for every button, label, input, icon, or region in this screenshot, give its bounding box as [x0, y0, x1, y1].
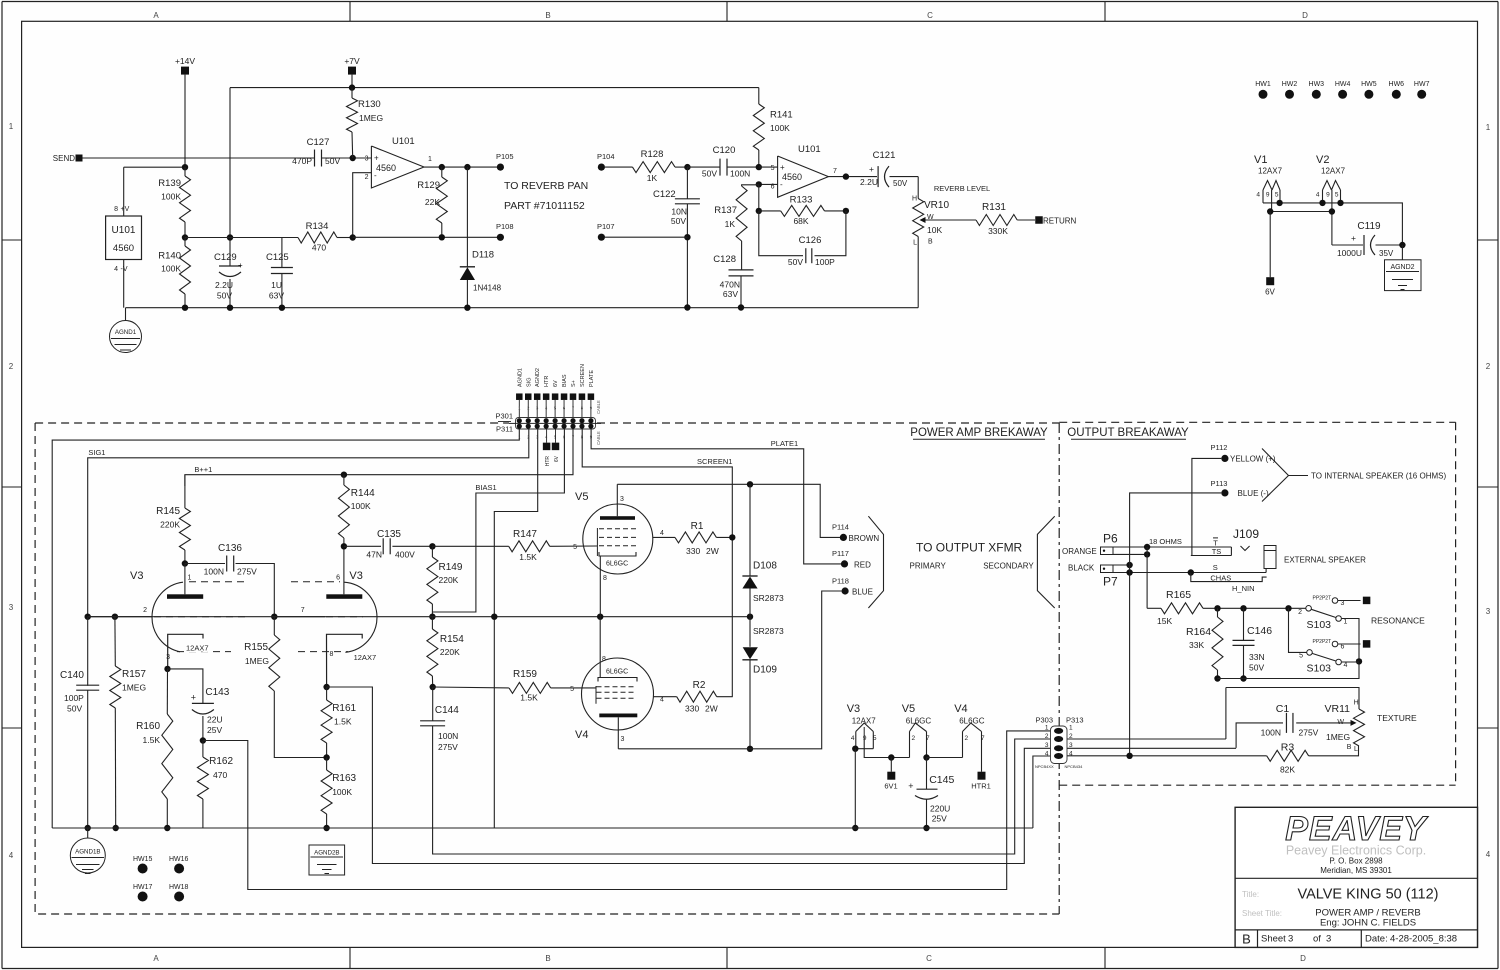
- svg-text:2: 2: [965, 735, 969, 742]
- svg-text:R144: R144: [351, 488, 375, 499]
- svg-text:+: +: [191, 693, 196, 703]
- svg-text:82K: 82K: [1280, 765, 1295, 775]
- svg-text:2: 2: [365, 174, 369, 181]
- svg-text:6V: 6V: [553, 380, 559, 387]
- svg-text:+: +: [869, 164, 874, 174]
- tube V3b envelope: [344, 582, 377, 652]
- svg-text:R1: R1: [691, 521, 704, 532]
- svg-text:5: 5: [1335, 192, 1339, 199]
- tube V3a envelope: [152, 582, 183, 652]
- svg-text:63V: 63V: [269, 291, 284, 301]
- wire feedback rail: [185, 237, 230, 239]
- svg-text:2: 2: [1045, 733, 1049, 740]
- svg-text:1: 1: [188, 575, 192, 582]
- svg-text:+V: +V: [121, 206, 130, 213]
- svg-text:R129: R129: [417, 180, 440, 191]
- svg-text:P313: P313: [1066, 716, 1084, 725]
- svg-text:470N: 470N: [720, 280, 740, 290]
- resistor R130: [351, 88, 353, 98]
- svg-text:S: S: [1213, 563, 1218, 572]
- wire heater bus1: [1263, 203, 1402, 245]
- svg-text:L: L: [913, 240, 917, 247]
- svg-text:12AX7: 12AX7: [1258, 167, 1283, 176]
- svg-text:C145: C145: [929, 774, 954, 786]
- svg-text:U101: U101: [392, 136, 415, 147]
- svg-text:9: 9: [1326, 192, 1330, 199]
- power 6V1: [888, 754, 894, 760]
- svg-text:4560: 4560: [376, 163, 396, 173]
- svg-text:PEAVEY: PEAVEY: [1285, 810, 1429, 848]
- title block frame: [1235, 807, 1477, 947]
- svg-text:+: +: [238, 261, 243, 270]
- svg-text:3: 3: [620, 496, 624, 503]
- svg-text:AGND1: AGND1: [517, 368, 523, 387]
- svg-text:4560: 4560: [113, 243, 134, 254]
- resistor R134: [230, 237, 298, 239]
- wire opamp2 plus: [759, 166, 778, 168]
- capacitor C145: [926, 758, 928, 790]
- capacitor C144: [432, 687, 434, 721]
- svg-text:R165: R165: [1166, 589, 1191, 601]
- svg-text:D118: D118: [472, 250, 494, 261]
- svg-text:100K: 100K: [332, 787, 352, 797]
- tube V3b cathode: [327, 634, 363, 687]
- svg-text:HW3: HW3: [1309, 81, 1325, 88]
- dashed output breakaway box: [1059, 421, 1455, 423]
- wire yellow net: [1192, 458, 1221, 555]
- svg-text:A: A: [153, 954, 159, 963]
- svg-text:47N: 47N: [366, 550, 382, 560]
- port P108: [497, 234, 504, 241]
- resistor R139: [180, 176, 191, 222]
- svg-text:S+: S+: [571, 380, 577, 387]
- svg-text:EXTERNAL SPEAKER: EXTERNAL SPEAKER: [1284, 556, 1366, 565]
- capacitor C140: [87, 617, 89, 686]
- capacitor C121: [877, 166, 879, 187]
- svg-text:2: 2: [9, 362, 14, 371]
- wire P107 to C122: [604, 236, 687, 238]
- svg-text:AGND2B: AGND2B: [314, 849, 339, 856]
- svg-text:P107: P107: [597, 222, 615, 231]
- svg-text:RED: RED: [854, 561, 871, 570]
- svg-text:BLUE: BLUE: [852, 588, 873, 597]
- svg-text:8: 8: [603, 575, 607, 582]
- svg-text:R155: R155: [244, 642, 268, 653]
- svg-text:3: 3: [621, 736, 625, 743]
- svg-text:R128: R128: [641, 149, 664, 160]
- connector HTR square: [546, 429, 548, 443]
- svg-text:6: 6: [336, 575, 340, 582]
- brace primary: [868, 516, 883, 608]
- svg-text:C136: C136: [218, 543, 242, 554]
- wire opamp2 output: [828, 176, 877, 178]
- svg-text:Meridian, MS 39301: Meridian, MS 39301: [1320, 866, 1392, 875]
- wire P6 bottom: [1113, 553, 1147, 555]
- svg-text:-V: -V: [121, 266, 128, 273]
- svg-text:1: 1: [1344, 619, 1348, 626]
- svg-text:S103: S103: [1307, 619, 1332, 631]
- svg-text:7: 7: [301, 607, 305, 614]
- svg-text:U101: U101: [798, 144, 821, 155]
- svg-text:ORANGE: ORANGE: [1062, 547, 1097, 556]
- svg-text:C135: C135: [377, 529, 401, 540]
- resistor R147: [432, 545, 508, 547]
- wire blue net: [1130, 493, 1222, 756]
- svg-text:50V: 50V: [893, 179, 908, 188]
- capacitor C126: [759, 211, 803, 256]
- tube V3b plate: [343, 546, 345, 594]
- wire opamp2 inv node: [759, 183, 778, 185]
- svg-text:R147: R147: [513, 529, 537, 540]
- svg-text:C140: C140: [60, 670, 84, 681]
- svg-text:3: 3: [9, 603, 14, 612]
- wire AGND1 rail: [126, 307, 919, 309]
- svg-text:2W: 2W: [705, 704, 718, 714]
- tube V4 cathode: [598, 678, 637, 682]
- svg-text:C125: C125: [266, 252, 289, 263]
- svg-text:+: +: [780, 163, 785, 172]
- svg-text:C119: C119: [1357, 221, 1381, 232]
- svg-text:C127: C127: [307, 137, 330, 148]
- brace internal speaker: [1262, 449, 1289, 502]
- svg-text:H: H: [912, 196, 917, 203]
- svg-text:C129: C129: [214, 252, 237, 263]
- svg-text:Peavey Electronics Corp.: Peavey Electronics Corp.: [1286, 844, 1426, 858]
- svg-text:HW7: HW7: [1414, 81, 1430, 88]
- svg-text:TO REVERB PAN: TO REVERB PAN: [504, 180, 588, 192]
- svg-text:BLACK: BLACK: [1068, 564, 1095, 573]
- resistor R1: [653, 536, 675, 538]
- zone ticks: [349, 2, 351, 22]
- svg-text:1MEG: 1MEG: [245, 656, 269, 666]
- svg-text:1.5K: 1.5K: [334, 717, 352, 727]
- svg-text:PP2P2T: PP2P2T: [1313, 596, 1332, 602]
- svg-text:C1: C1: [1276, 703, 1290, 715]
- svg-text:P112: P112: [1211, 443, 1228, 452]
- wire PLATE1 net: [591, 429, 841, 564]
- svg-text:HW2: HW2: [1282, 81, 1298, 88]
- node +14V junction: [182, 164, 188, 170]
- svg-text:PART #71011152: PART #71011152: [504, 200, 585, 212]
- svg-text:2: 2: [1298, 609, 1302, 616]
- wire AGND1 net: [52, 429, 519, 828]
- svg-text:50V: 50V: [67, 704, 82, 714]
- svg-text:P311: P311: [496, 425, 513, 434]
- svg-text:4: 4: [660, 530, 664, 537]
- capacitor C122: [686, 167, 688, 199]
- svg-text:1: 1: [1045, 725, 1049, 732]
- node R139/R140: [182, 234, 188, 240]
- border frame: [2, 1, 1498, 3]
- svg-text:100K: 100K: [351, 501, 371, 511]
- svg-text:68K: 68K: [793, 216, 808, 226]
- svg-text:HW15: HW15: [133, 856, 153, 863]
- wire C146 bottom: [1218, 619, 1360, 679]
- svg-text:A: A: [153, 11, 159, 20]
- svg-text:BLUE (-): BLUE (-): [1238, 489, 1269, 498]
- svg-text:B: B: [1347, 744, 1352, 751]
- svg-text:5: 5: [771, 165, 775, 172]
- resistor R137: [742, 185, 759, 186]
- svg-text:3: 3: [166, 654, 170, 661]
- svg-text:3: 3: [1326, 934, 1331, 945]
- wire P7 sleeve line: [1113, 572, 1266, 574]
- svg-text:V4: V4: [575, 729, 588, 741]
- svg-text:SR2873: SR2873: [753, 626, 784, 636]
- svg-text:+7V: +7V: [344, 56, 360, 66]
- svg-text:P105: P105: [496, 152, 514, 161]
- svg-text:L: L: [1354, 746, 1358, 753]
- svg-text:P7: P7: [1103, 575, 1118, 589]
- svg-text:12AX7: 12AX7: [186, 644, 209, 653]
- svg-text:15K: 15K: [1157, 616, 1172, 626]
- node C120 left: [684, 164, 690, 170]
- connector P303/P313 body: [1051, 726, 1068, 764]
- svg-text:1.5K: 1.5K: [519, 552, 537, 562]
- svg-text:2: 2: [1069, 733, 1073, 740]
- port SEND: [76, 155, 83, 162]
- svg-text:R130: R130: [358, 99, 381, 110]
- resistor R159: [433, 686, 509, 689]
- wire chassis: [1191, 573, 1267, 582]
- svg-text:V3: V3: [349, 570, 362, 582]
- svg-text:+14V: +14V: [175, 56, 195, 66]
- svg-text:12AX7: 12AX7: [354, 653, 377, 662]
- svg-text:TO INTERNAL SPEAKER (16 OHMS): TO INTERNAL SPEAKER (16 OHMS): [1311, 472, 1446, 481]
- svg-text:3: 3: [365, 156, 369, 163]
- tube V4 grids: [597, 686, 637, 688]
- svg-text:4560: 4560: [782, 172, 802, 182]
- tube V3a grid: [88, 616, 153, 618]
- hardware HW1-HW7: [1259, 90, 1268, 99]
- svg-text:25V: 25V: [207, 725, 222, 735]
- svg-text:100N: 100N: [1261, 728, 1281, 738]
- svg-text:25V: 25V: [932, 814, 947, 824]
- svg-text:4: 4: [1486, 850, 1491, 859]
- wire P7 top: [1113, 564, 1130, 566]
- resistor R129: [441, 167, 443, 177]
- svg-text:12AX7: 12AX7: [1321, 167, 1346, 176]
- tube V5 grids: [599, 528, 636, 530]
- svg-text:6L6GC: 6L6GC: [906, 717, 932, 726]
- svg-text:HW5: HW5: [1361, 81, 1377, 88]
- resistor R133: [759, 210, 781, 212]
- svg-text:R154: R154: [440, 634, 464, 645]
- svg-text:2: 2: [1486, 362, 1491, 371]
- svg-text:4-28-2005_8:38: 4-28-2005_8:38: [1390, 934, 1457, 945]
- svg-text:RESONANCE: RESONANCE: [1371, 616, 1425, 626]
- svg-text:R134: R134: [306, 221, 329, 232]
- svg-text:POWER AMP BREKAWAY: POWER AMP BREKAWAY: [910, 427, 1048, 439]
- svg-text:C126: C126: [799, 235, 822, 246]
- svg-text:7: 7: [833, 168, 837, 175]
- svg-text:R149: R149: [439, 562, 463, 573]
- svg-text:4: 4: [1256, 192, 1260, 199]
- tube V5 cathode: [599, 552, 636, 556]
- svg-text:Sheet: Sheet: [1261, 934, 1286, 945]
- ground AGND1B: [87, 828, 89, 838]
- svg-text:P108: P108: [496, 222, 514, 231]
- svg-text:1MEG: 1MEG: [122, 683, 146, 693]
- wire BIAS1 net: [432, 429, 564, 612]
- resistor R160: [166, 669, 168, 714]
- svg-text:R145: R145: [156, 506, 180, 517]
- svg-text:V4: V4: [954, 703, 967, 715]
- svg-text:HTR: HTR: [544, 376, 550, 387]
- wire AGND2 net: [494, 429, 537, 828]
- svg-text:4: 4: [660, 697, 664, 704]
- svg-text:50V: 50V: [788, 257, 803, 267]
- svg-text:+: +: [1351, 233, 1356, 243]
- capacitor C143: [168, 669, 203, 704]
- svg-text:8: 8: [602, 656, 606, 663]
- svg-text:5: 5: [1275, 192, 1279, 199]
- svg-text:33K: 33K: [1189, 640, 1204, 650]
- svg-text:HW1: HW1: [1255, 81, 1271, 88]
- svg-text:2.2U: 2.2U: [215, 280, 233, 290]
- wire opamp1 output: [424, 166, 500, 168]
- wire cathode rail: [88, 616, 750, 618]
- svg-text:P118: P118: [832, 577, 849, 586]
- svg-text:8: 8: [114, 206, 118, 213]
- svg-text:CHAS: CHAS: [1210, 573, 1231, 582]
- svg-text:330: 330: [685, 704, 699, 714]
- svg-text:Title:: Title:: [1242, 890, 1259, 899]
- svg-text:SECONDARY: SECONDARY: [983, 561, 1034, 570]
- svg-text:PLATE: PLATE: [589, 370, 595, 387]
- svg-text:HW16: HW16: [169, 856, 189, 863]
- svg-text:V5: V5: [575, 491, 588, 503]
- svg-text:6V1: 6V1: [884, 782, 897, 791]
- svg-text:HW17: HW17: [133, 884, 153, 891]
- resistor R141: [758, 88, 760, 104]
- svg-text:AGND2: AGND2: [535, 368, 541, 387]
- svg-text:6V: 6V: [1265, 288, 1275, 297]
- port P114: [840, 534, 847, 541]
- svg-text:22U: 22U: [207, 715, 223, 725]
- resistor R164: [1217, 608, 1219, 617]
- svg-text:4: 4: [1344, 662, 1348, 669]
- svg-text:D108: D108: [753, 561, 777, 572]
- wire SCREEN1 net: [582, 429, 732, 697]
- svg-text:50V: 50V: [1249, 663, 1264, 673]
- tube V3a plate: [184, 564, 186, 595]
- op-amp U101b: [778, 156, 829, 197]
- resistor R128: [604, 166, 633, 168]
- svg-text:2W: 2W: [706, 546, 719, 556]
- svg-text:220K: 220K: [160, 520, 180, 530]
- tube V5 plate: [600, 516, 635, 520]
- svg-text:B: B: [928, 239, 933, 246]
- resistor R155: [273, 617, 275, 635]
- op-amp U101a: [371, 146, 424, 188]
- potentiometer VR11: [1226, 688, 1359, 710]
- svg-text:V5: V5: [902, 703, 915, 715]
- svg-text:12AX7: 12AX7: [852, 717, 877, 726]
- port RETURN: [1035, 216, 1043, 224]
- capacitor C1: [1236, 723, 1283, 748]
- svg-text:C121: C121: [873, 150, 896, 161]
- svg-text:D: D: [1300, 954, 1306, 963]
- capacitor C125: [281, 238, 283, 268]
- svg-text:AGND1B: AGND1B: [75, 849, 100, 856]
- svg-text:C144: C144: [435, 705, 459, 716]
- svg-text:V3: V3: [130, 570, 143, 582]
- connector P301/P311 body: [516, 418, 596, 430]
- connector 6V square: [555, 429, 557, 443]
- svg-text:V3: V3: [847, 703, 860, 715]
- svg-text:9: 9: [1266, 192, 1270, 199]
- svg-text:33N: 33N: [1249, 652, 1265, 662]
- svg-text:P303: P303: [1036, 716, 1054, 725]
- svg-text:R3: R3: [1281, 742, 1295, 754]
- svg-text:2: 2: [143, 607, 147, 614]
- svg-text:S103: S103: [1307, 663, 1332, 675]
- svg-text:4: 4: [114, 266, 118, 273]
- tube V3b grid: [274, 616, 325, 618]
- svg-text:C120: C120: [713, 145, 736, 156]
- svg-text:100N: 100N: [730, 169, 750, 179]
- svg-text:470: 470: [312, 243, 326, 253]
- svg-text:P104: P104: [597, 152, 615, 161]
- svg-text:1: 1: [9, 122, 14, 131]
- svg-text:C: C: [926, 954, 932, 963]
- wire VR11 top from P313-2: [1066, 738, 1226, 740]
- svg-text:VR10: VR10: [924, 200, 949, 211]
- svg-text:1: 1: [428, 156, 432, 163]
- svg-text:R140: R140: [158, 251, 181, 262]
- svg-text:V1: V1: [1254, 154, 1267, 166]
- svg-text:35V: 35V: [1379, 249, 1394, 258]
- svg-text:VALVE KING 50 (112): VALVE KING 50 (112): [1297, 887, 1438, 903]
- resistor R144: [343, 475, 345, 485]
- svg-text:50V: 50V: [702, 169, 717, 179]
- svg-text:R133: R133: [790, 195, 813, 206]
- svg-text:NPCB434: NPCB434: [1065, 764, 1084, 769]
- wire B++1 net: [185, 429, 573, 486]
- svg-text:NPCB4XX: NPCB4XX: [1035, 764, 1054, 769]
- capacitor C127: [314, 150, 316, 167]
- svg-text:U101: U101: [112, 225, 136, 236]
- diode D109: [749, 617, 751, 647]
- svg-text:H_NIN: H_NIN: [1232, 584, 1255, 593]
- svg-text:50V: 50V: [671, 216, 686, 226]
- node R140 gnd: [182, 305, 188, 311]
- wire P6 tip line: [1113, 546, 1231, 548]
- svg-text:Eng: JOHN C. FIELDS: Eng: JOHN C. FIELDS: [1320, 918, 1416, 929]
- svg-text:R159: R159: [513, 669, 537, 680]
- capacitor C120: [719, 159, 721, 176]
- svg-text:B: B: [545, 11, 550, 20]
- svg-text:Sheet Title:: Sheet Title:: [1242, 909, 1282, 918]
- svg-text:P114: P114: [832, 523, 849, 532]
- svg-text:1: 1: [1486, 123, 1491, 132]
- wire opamp1 inv input: [353, 173, 372, 238]
- potentiometer VR10: [917, 177, 919, 199]
- power 6V: [1269, 212, 1271, 278]
- resistor R161: [326, 687, 328, 700]
- svg-text:-: -: [374, 171, 377, 180]
- wire C144 to P303 pin2: [433, 726, 1051, 854]
- svg-text:D: D: [1302, 11, 1308, 20]
- svg-text:P113: P113: [1211, 479, 1228, 488]
- svg-text:HW18: HW18: [169, 884, 189, 891]
- svg-text:1000U: 1000U: [1337, 248, 1362, 258]
- svg-text:OUTPUT BREAKAWAY: OUTPUT BREAKAWAY: [1067, 427, 1189, 439]
- svg-text:10K: 10K: [927, 225, 942, 235]
- svg-text:B++1: B++1: [194, 465, 212, 474]
- svg-text:PLATE1: PLATE1: [771, 439, 798, 448]
